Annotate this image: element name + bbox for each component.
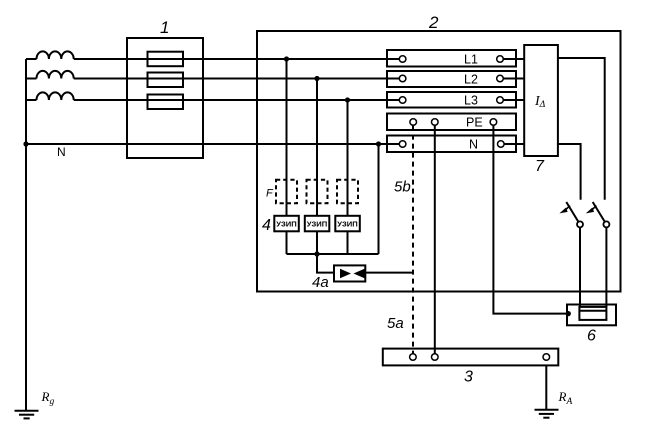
terminal L3 left [399,97,406,104]
wire U7 bottom out [558,144,581,200]
svg-text:УЗИП: УЗИП [276,219,296,228]
wire SPD drop L3 [347,100,349,254]
ground RA [535,409,559,411]
busbar N [387,136,516,153]
busbar L2 [387,71,516,87]
node L1 tap [284,56,289,61]
SPD unit 3 [335,216,360,232]
terminal PE a [410,119,417,126]
node L3 tap [345,97,350,102]
terminal L1 left [399,56,406,63]
terminal bar3 b [432,354,439,361]
svg-text:5b: 5b [394,179,411,196]
svg-text:F: F [266,188,274,200]
spark gap 4a left electrode [340,269,351,278]
svg-text:N: N [57,145,66,159]
node L2 tap [314,76,319,81]
svg-text:5a: 5a [387,315,404,332]
wire L3 line [74,99,400,101]
RCD U7 [524,45,558,156]
busbar PE [387,114,516,131]
svg-text:7: 7 [535,158,545,175]
wire PE solid conductor [434,126,436,354]
wire L1 bar to U7 [503,58,524,60]
wire S2 to unit 6 [605,227,607,307]
wire S1 to unit 6 [579,227,581,307]
wire N bar to U7 [503,143,524,145]
box 2 (distribution board enclosure) [257,31,621,292]
SPD unit 1 [274,216,299,232]
node N tap [376,141,381,146]
box 1 (overcurrent protection cabinet) [127,38,203,158]
terminal L2 right [497,75,504,82]
busbar L3 [387,92,516,108]
switch S2 blade [593,202,605,222]
wire SPD drop L2 [316,79,318,255]
wire L1 line [74,58,400,60]
inductor winding L3 [37,92,74,100]
svg-text:L2: L2 [464,73,478,87]
terminal PE b [432,119,439,126]
svg-text:3: 3 [464,369,473,386]
switch S1 arrow [566,206,570,210]
wire bar3 to RA earth [545,365,547,409]
svg-text:N: N [469,138,478,152]
wire L2 stub [26,78,37,80]
wire PE dashed conductor 5 [412,126,414,354]
svg-text:УЗИП: УЗИП [337,219,357,228]
switch S1 contact [577,221,583,227]
terminal bar3 a [410,354,417,361]
wire L1 stub [26,58,37,60]
fuse F dashed box 1 [276,180,297,203]
wire L2 line [74,78,400,80]
wire L3 bar to U7 [503,99,524,101]
unit 6 outer box [567,305,616,326]
ground Rg [15,410,39,412]
wire common to 4a [317,254,334,273]
wire SPD common bus [287,253,379,255]
wire 4a to PE conductor [365,272,413,274]
svg-text:2: 2 [428,13,439,32]
terminal PE c [490,119,497,126]
earthing bar 3 [383,349,559,366]
svg-text:Rg: Rg [41,389,55,407]
svg-text:6: 6 [587,328,596,345]
inductor winding L2 [37,71,74,79]
wire N line [26,143,400,145]
switch S1 blade [566,202,578,222]
svg-text:L3: L3 [464,94,478,108]
node N left junction [23,141,28,146]
terminal bar3 c [543,354,550,361]
unit 6 element [579,307,606,320]
fuse F3 [148,95,184,110]
fuse F2 [148,73,184,88]
svg-text:L1: L1 [464,53,478,67]
switch S2 contact [603,221,609,227]
wire L3 stub [26,99,37,101]
wire L2 bar to U7 [503,78,524,80]
svg-text:IΔ: IΔ [534,94,546,110]
spark gap 4a right electrode [354,269,365,278]
fuse F dashed box 3 [337,180,358,203]
switch S2 arrow [592,206,596,210]
wire left vertical bus [25,59,27,411]
fuse F dashed box 2 [307,180,328,203]
svg-text:4a: 4a [312,274,329,291]
terminal L1 right [497,56,504,63]
terminal N right [498,141,505,148]
busbar L1 [387,50,516,67]
terminal L2 left [399,75,406,82]
node PE-unit6 junction [566,311,571,316]
svg-text:1: 1 [160,18,169,37]
wire PE to unit 6 [493,126,567,314]
SPD unit 2 [305,216,330,232]
inductor winding L1 [37,51,74,59]
spark gap 4a box [334,265,365,281]
svg-text:RA: RA [558,389,573,407]
wire N drop [378,144,380,254]
svg-text:4: 4 [262,217,271,234]
fuse F1 [148,52,184,66]
svg-text:УЗИП: УЗИП [307,219,327,228]
terminal L3 right [497,97,504,104]
node SPD common junction [314,251,319,256]
wire SPD drop L1 [286,59,288,254]
svg-text:PE: PE [466,116,483,130]
terminal N left [399,141,406,148]
wire U7 top out [558,58,605,200]
